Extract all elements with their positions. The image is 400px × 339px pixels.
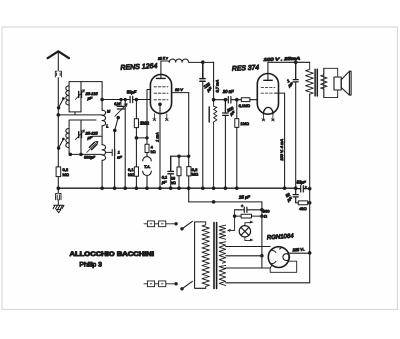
resistor 860 Ohm [235,215,242,217]
RGN filament loop [283,254,290,261]
switch S2 [59,139,64,148]
svg-text:1MΩ: 1MΩ [240,121,249,126]
svg-text:32µF: 32µF [297,179,307,184]
svg-text:µF: µF [88,96,93,101]
output transformer core [315,69,317,96]
grid lead right RES [275,93,284,188]
coil L2 [66,128,69,147]
bias line [189,201,262,203]
svg-text:2MΩ: 2MΩ [140,121,149,126]
screen RC row [171,155,189,157]
power transformer secondary 1 [219,225,226,239]
B+ drop line [309,94,311,253]
svg-text:µF: µF [88,135,93,140]
label 125pF [203,81,214,93]
node 125p [202,61,205,64]
wire switch to bus [114,131,116,189]
anode RENS [156,77,165,79]
svg-text:Philip 3: Philip 3 [79,262,102,269]
ground bus [58,187,295,189]
svg-text:100 V. 4 mA: 100 V. 4 mA [279,139,284,161]
power transformer primary [202,222,209,288]
filament legs RES [262,114,274,121]
connector plug [56,194,61,200]
svg-text:30 V: 30 V [175,88,183,92]
node 2M bottom [135,137,138,140]
svg-text:20 nF: 20 nF [222,89,234,94]
heater legs RENS [153,114,168,121]
tap to rectifier anode [226,246,271,248]
svg-text:4kΩ: 4kΩ [299,206,306,211]
svg-text:25 K v: 25 K v [157,56,168,61]
capacitor 32uF b [293,189,298,203]
RF choke coil [169,59,189,62]
wire box1 top [69,82,102,112]
svg-text:25 µF: 25 µF [238,194,251,200]
wire box1 bottom edge [69,112,81,115]
power transformer core [214,223,217,289]
anode lead RENS [161,61,169,78]
coil L [102,145,105,161]
node screen bus [187,187,190,190]
resistor 4kOhm TA [146,138,148,144]
wire 225V [289,252,310,254]
anode RES [264,79,272,81]
node tune [124,98,126,100]
RGN electrodes [271,248,281,264]
wire cathode tap [147,90,151,138]
ground [53,200,64,213]
wire box2 top [69,120,96,154]
screen wire RENS 30V [172,92,189,94]
tap bottom row [226,267,271,269]
resistor 4kOhm filter [296,202,299,204]
tuning trimmer 6M [120,100,122,106]
trimmer C1 [79,92,82,98]
pot slider arm [230,210,235,231]
resistor 0.2MOhm antenna [56,167,61,177]
wire tune to bus [124,100,126,189]
wire 50pF to grid [134,99,151,101]
svg-text:nF: nF [117,155,122,160]
anode lead RES [267,62,269,80]
node grid RES [236,98,239,101]
capacitor 1nF [106,149,115,155]
output transformer secondary [321,68,328,97]
switch tuning [115,118,118,130]
bus nodes [101,187,104,190]
wire ML column [101,82,103,189]
cathode RENS [159,103,162,106]
TA jack [143,153,152,189]
wire box2 bottom [69,153,102,155]
cathode lead RENS [159,104,161,188]
svg-text:0,1MΩ: 0,1MΩ [239,104,250,108]
svg-text:Ω: Ω [264,213,267,218]
resistor 2MOhm [135,100,137,119]
node trim [120,98,122,100]
filament RES [263,107,273,114]
switch S1 [59,99,64,108]
wire box2 right [80,120,82,154]
capacitor 800pF [223,100,229,116]
node bus left [57,187,60,190]
speaker frame [324,68,338,97]
capacitor 500pF padder [93,135,103,137]
output transformer primary [306,62,314,94]
svg-text:225 V: 225 V [291,247,303,253]
wire anode drop [213,62,215,99]
resistor 0.1MOhm grid leak [134,167,138,176]
speaker driver [334,77,341,90]
mains plug top [144,223,176,225]
grid RENS dashes [154,87,168,100]
pilot lamp [239,226,250,237]
capacitor 20nF [228,97,231,103]
tube RENS1264 envelope [150,74,171,113]
node 2M [135,98,138,101]
node box2 a [69,153,72,156]
resistor 10kOhm [178,156,180,167]
wire to RES grid [250,99,258,101]
coil M [102,110,105,126]
capacitor 125pF [200,62,205,81]
svg-text:kΩ: kΩ [171,180,176,185]
tap to filament [226,255,262,257]
wire to ground [57,177,59,194]
svg-text:kΩ: kΩ [151,149,156,154]
resistor 0.1MOhm coupling [241,98,250,102]
svg-text:MΩ: MΩ [192,172,198,177]
bottom return line [226,253,310,283]
trimmer C2 [79,132,82,138]
svg-text:MΩ: MΩ [128,172,134,177]
mains plug bottom [144,283,176,285]
mains link [195,222,206,288]
node screen [212,98,215,101]
node grid-right bus [283,187,286,190]
capacitor 32uF a [296,186,310,192]
mains switch top [182,221,192,229]
svg-text:6,M: 6,M [114,102,120,106]
capacitor 0.1uF [168,156,174,174]
wire to TA [136,137,147,139]
antenna [48,51,69,58]
potentiometer screen [214,100,217,189]
wire screen row [214,99,228,101]
wire below box1 [58,114,102,116]
mains switch bottom [182,281,192,289]
svg-text:RES 374: RES 374 [232,64,260,72]
grid RES dashes [261,88,275,94]
coil L1 [66,86,69,105]
svg-text:µF: µF [162,180,167,185]
rail 100V [268,61,310,63]
svg-text:0,7 mA: 0,7 mA [214,79,219,92]
wire box1 right [80,82,82,112]
svg-text:MΩ: MΩ [63,172,69,177]
tube RGN1064 [268,247,289,268]
resistor 0.2M screen [188,93,190,167]
power transformer secondary 2 [219,242,226,263]
RES filament drop [261,202,263,268]
RGN bottom loop [270,261,297,272]
wire grid row [102,99,129,101]
capacitor 1uF [293,62,298,82]
svg-text:1 mA: 1 mA [155,132,160,142]
svg-text:50pF: 50pF [127,89,137,94]
capacitor 25uF [235,205,262,212]
wire 20nF to 0.1M [232,99,242,101]
capacitor 50pF [130,96,133,102]
node box1 [57,114,60,117]
svg-text:T.A.: T.A. [144,165,151,169]
node box2 b [80,153,83,156]
lightning arrester [55,71,61,77]
resistor 1MOhm grid [236,100,238,119]
svg-text:500µF: 500µF [84,155,96,160]
node grid-M [101,98,104,101]
speaker cone [341,71,351,95]
wire antenna lead-in [57,52,59,167]
svg-text:ALLOCCHIO BACCHINI: ALLOCCHIO BACCHINI [70,251,155,258]
power transformer secondary 3 [219,265,226,285]
wire choke to junction [189,61,213,63]
tube RES374 envelope [257,74,278,115]
